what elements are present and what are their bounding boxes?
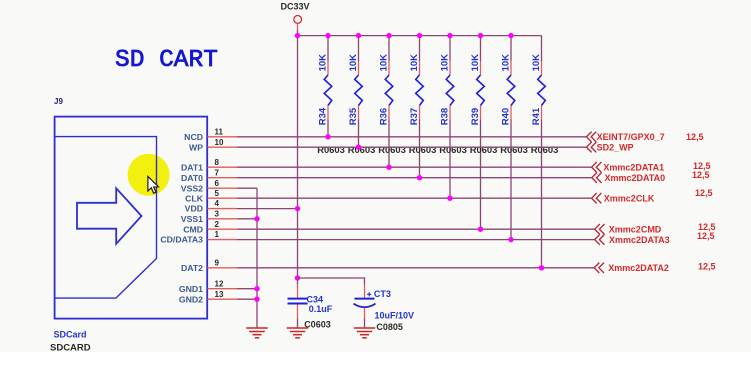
mouse cursor: [148, 176, 159, 193]
svg-text:SD CART: SD CART: [115, 47, 218, 74]
junction dot (298,36): [295, 33, 300, 38]
off-page connector Xmmc2DATA3: [595, 234, 670, 244]
wire resistor R34 top connection: [327, 36, 329, 61]
svg-text:10K: 10K: [378, 54, 389, 72]
SD card inner outline: [55, 137, 157, 299]
svg-text:R0603: R0603: [439, 144, 467, 155]
wire net VDD row: [237, 208, 298, 210]
svg-text:3: 3: [215, 209, 220, 218]
wire resistor R35 bottom connection: [358, 120, 360, 148]
wire resistor R40 top connection: [510, 36, 512, 61]
off-page connector XEINT7/GPX0_7: [587, 132, 665, 142]
wire net VSS1 row: [237, 218, 257, 220]
off-page connector Xmmc2DATA2: [594, 263, 669, 273]
svg-text:5: 5: [215, 189, 220, 198]
svg-text:Xmmc2DATA1: Xmmc2DATA1: [603, 162, 664, 172]
pin 2 (CMD) of J9: [183, 220, 237, 235]
wire net Xmmc2CMD row: [237, 228, 595, 230]
svg-text:9: 9: [215, 258, 220, 267]
wire net XEINT7/GPX0_7 row: [237, 136, 586, 138]
junction dot (328,36): [325, 33, 330, 38]
off-page connector Xmmc2CMD: [595, 224, 662, 234]
capacitor C34 0.1uF: [288, 285, 333, 330]
svg-text:Xmmc2DATA3: Xmmc2DATA3: [609, 235, 670, 245]
svg-text:DC33V: DC33V: [281, 2, 310, 12]
svg-text:2: 2: [215, 220, 220, 229]
wire resistor R38 bottom connection: [449, 120, 451, 199]
pin 4 (VDD) of J9: [185, 199, 237, 214]
svg-text:R0603: R0603: [348, 144, 376, 155]
svg-text:R37: R37: [409, 108, 420, 125]
svg-text:R36: R36: [378, 108, 389, 125]
svg-text:4: 4: [215, 199, 220, 208]
wire net SD2_WP row: [237, 146, 586, 148]
svg-text:DAT0: DAT0: [181, 173, 203, 183]
junction dot (358,36): [356, 33, 361, 38]
svg-text:CLK: CLK: [185, 193, 204, 203]
pin 1 (CD/DATA3) of J9: [160, 230, 237, 245]
connector J9 body: [55, 117, 208, 319]
wire resistor R41 bottom connection: [541, 120, 543, 268]
svg-text:1: 1: [215, 230, 220, 239]
svg-text:10uF/10V: 10uF/10V: [375, 311, 415, 321]
svg-text:Xmmc2CMD: Xmmc2CMD: [609, 224, 662, 234]
wire DC33V bus horizontal: [298, 35, 542, 37]
svg-text:Xmmc2DATA2: Xmmc2DATA2: [608, 263, 669, 273]
junction dot (257,289): [254, 286, 259, 291]
svg-text:R0603: R0603: [409, 144, 437, 155]
svg-text:Xmmc2CLK: Xmmc2CLK: [604, 193, 655, 203]
svg-text:J9: J9: [54, 97, 63, 106]
wire resistor R36 bottom connection: [388, 120, 390, 168]
svg-text:11: 11: [215, 127, 224, 136]
junction dot (450,198): [447, 196, 452, 201]
junction dot (511,36): [508, 33, 513, 38]
svg-text:XEINT7/GPX0_7: XEINT7/GPX0_7: [597, 132, 665, 142]
svg-text:R0603: R0603: [531, 144, 559, 155]
svg-text:GND1: GND1: [179, 284, 203, 294]
junction dot (257,219): [254, 216, 259, 221]
junction dot (542,268): [539, 265, 544, 270]
junction dot (298,278): [295, 275, 300, 280]
svg-text:7: 7: [215, 168, 220, 177]
wire ground column: [256, 188, 258, 328]
junction dot (389,167): [386, 165, 391, 170]
svg-text:GND2: GND2: [179, 294, 203, 304]
pin 3 (VSS1) of J9: [181, 209, 237, 224]
resistor R41 10K: [531, 54, 545, 125]
off-page connector Xmmc2DATA0: [592, 173, 665, 183]
ground for GND pins: [246, 328, 268, 338]
junction dot (450,36): [447, 33, 452, 38]
svg-text:12,5: 12,5: [686, 132, 704, 142]
ground for CT3: [354, 328, 375, 338]
junction dot (420,36): [417, 33, 422, 38]
svg-text:R40: R40: [500, 108, 511, 125]
wire net Xmmc2DATA0 row: [237, 177, 592, 179]
svg-text:VDD: VDD: [185, 204, 203, 214]
svg-text:R0603: R0603: [500, 144, 528, 155]
svg-text:8: 8: [215, 158, 220, 167]
junction dot (511,240): [508, 237, 513, 242]
svg-text:VSS2: VSS2: [181, 183, 203, 193]
wire branch to CT3: [298, 278, 365, 285]
wire resistor R35 top connection: [358, 36, 360, 61]
arrow symbol inside connector: [77, 188, 142, 244]
svg-text:CT3: CT3: [374, 289, 391, 299]
wire resistor R41 top connection: [541, 36, 543, 61]
wire resistor R39 bottom connection: [480, 120, 482, 230]
svg-text:R38: R38: [439, 108, 450, 125]
svg-text:SDCard: SDCard: [54, 330, 87, 340]
svg-text:10K: 10K: [470, 54, 481, 72]
pin 8 (DAT1) of J9: [181, 158, 237, 173]
svg-text:DAT2: DAT2: [181, 263, 203, 273]
svg-text:R0603: R0603: [470, 144, 498, 155]
resistor R35 10K: [348, 54, 362, 125]
svg-text:R35: R35: [348, 107, 359, 125]
svg-text:12,5: 12,5: [692, 170, 710, 180]
svg-text:R0603: R0603: [378, 144, 406, 155]
svg-text:13: 13: [215, 290, 224, 299]
svg-text:SD2_WP: SD2_WP: [597, 142, 634, 152]
off-page connector Xmmc2DATA1: [592, 162, 664, 172]
svg-text:R39: R39: [470, 108, 481, 125]
wire net Xmmc2CLK row: [237, 197, 591, 199]
svg-text:10K: 10K: [500, 54, 511, 72]
off-page connector Xmmc2CLK: [592, 193, 655, 203]
svg-text:VSS1: VSS1: [181, 214, 203, 224]
resistor R39 10K: [470, 54, 484, 125]
svg-text:10K: 10K: [348, 54, 359, 72]
pin 6 (VSS2) of J9: [181, 179, 237, 194]
svg-text:SDCARD: SDCARD: [50, 343, 91, 354]
pin 7 (DAT0) of J9: [181, 168, 237, 183]
wire resistor R40 bottom connection: [510, 120, 512, 240]
pin 5 (CLK) of J9: [185, 189, 237, 204]
wire net Xmmc2DATA2 row: [237, 267, 594, 269]
wire resistor R37 bottom connection: [419, 120, 421, 178]
svg-text:WP: WP: [189, 142, 203, 152]
svg-text:DAT1: DAT1: [181, 162, 203, 172]
wire DC33V vertical column: [297, 30, 299, 285]
wire resistor R39 top connection: [480, 36, 482, 61]
svg-text:12: 12: [215, 279, 224, 288]
junction dot (389,36): [386, 33, 391, 38]
svg-text:NCD: NCD: [184, 132, 203, 142]
junction dot (358,147): [356, 145, 361, 150]
junction dot (298,209): [295, 206, 300, 211]
pin 9 (DAT2) of J9: [181, 258, 237, 273]
svg-text:R0603: R0603: [317, 144, 345, 155]
svg-text:10: 10: [215, 138, 224, 147]
ground for C34: [287, 328, 308, 338]
off-page connector SD2_WP: [587, 142, 634, 152]
resistor R38 10K: [439, 54, 453, 125]
svg-text:10K: 10K: [317, 54, 328, 72]
svg-text:12,5: 12,5: [695, 188, 713, 198]
svg-text:Xmmc2DATA0: Xmmc2DATA0: [605, 173, 666, 183]
wire net GND1 row: [237, 288, 257, 290]
svg-text:12,5: 12,5: [697, 231, 715, 241]
junction dot (257,299): [254, 297, 259, 302]
wire resistor R37 top connection: [419, 36, 421, 61]
power port DC33V: [281, 2, 310, 31]
svg-text:C0805: C0805: [376, 322, 403, 332]
svg-text:6: 6: [215, 179, 220, 188]
svg-text:12,5: 12,5: [698, 262, 716, 272]
resistor R34 10K: [317, 54, 331, 125]
wire resistor R38 top connection: [449, 36, 451, 61]
wire resistor R36 top connection: [388, 36, 390, 61]
wire net VSS2 row: [237, 187, 257, 189]
wire net Xmmc2DATA3 row: [237, 239, 595, 241]
pin 11 (NCD) of J9: [184, 127, 237, 142]
svg-text:10K: 10K: [409, 54, 420, 72]
wire net GND2 row: [237, 298, 257, 300]
resistor R40 10K: [500, 54, 514, 125]
pin 13 (GND2) of J9: [179, 290, 237, 305]
junction dot (480,36): [478, 33, 483, 38]
svg-text:0.1uF: 0.1uF: [309, 304, 333, 314]
svg-text:R41: R41: [531, 107, 542, 125]
wire C34 to ground: [297, 319, 299, 329]
junction dot (480,229): [478, 227, 483, 232]
svg-text:CD/DATA3: CD/DATA3: [160, 235, 203, 245]
svg-text:CMD: CMD: [183, 224, 203, 234]
svg-text:10K: 10K: [439, 54, 450, 72]
wire resistor R34 bottom connection: [327, 120, 329, 137]
junction dot (420,178): [417, 175, 422, 180]
resistor R37 10K: [409, 54, 423, 125]
junction dot (328,137): [325, 134, 330, 139]
pin 10 (WP) of J9: [189, 138, 237, 153]
svg-text:R34: R34: [317, 107, 328, 125]
resistor R36 10K: [378, 54, 392, 125]
yellow highlight circle: [128, 154, 170, 196]
capacitor CT3 10uF/10V polarized: [354, 285, 415, 332]
wire net Xmmc2DATA1 row: [237, 166, 591, 168]
pin 12 (GND1) of J9: [179, 279, 237, 294]
svg-text:10K: 10K: [531, 54, 542, 72]
wire CT3 to ground: [364, 319, 366, 329]
